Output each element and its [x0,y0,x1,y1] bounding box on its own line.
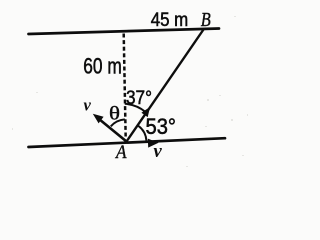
svg-text:37°: 37° [126,87,152,109]
wire: top bank line [29,29,220,35]
svg-text:53°: 53° [146,114,177,139]
wire: diagonal line A to B [127,30,204,142]
svg-text:v: v [154,142,163,162]
svg-text:A: A [114,143,127,163]
vector v (swimmer) up-left arrow shaft [99,119,127,142]
svg-text:v: v [84,96,92,115]
svg-text:60 m: 60 m [83,53,122,78]
arc for angle theta [111,119,125,126]
arc for angle 37 [125,104,146,112]
svg-text:B: B [201,9,211,31]
arrowhead of up-left v [93,114,104,124]
svg-text:45 m: 45 m [151,10,189,31]
arrowhead of river velocity v (right along bottom line) [148,139,159,148]
wire: dashed vertical line (60 m) [124,34,126,140]
svg-text:θ: θ [109,104,120,125]
wire: bottom bank line [29,138,226,147]
arc for angle 53 [138,125,147,140]
arrowhead on diagonal AB [141,107,150,117]
